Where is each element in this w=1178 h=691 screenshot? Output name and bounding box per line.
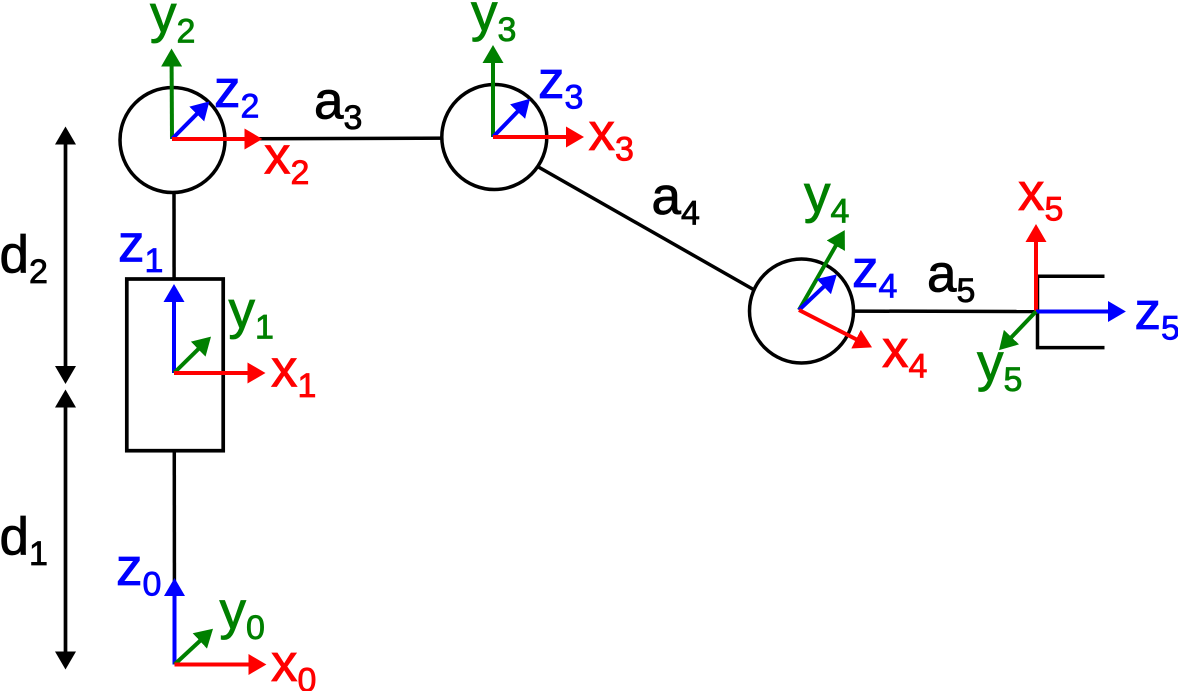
- axis z2: [172, 113, 198, 139]
- axis y5: [1010, 312, 1036, 339]
- svg-text:d1: d1: [0, 508, 48, 574]
- svg-text:y1: y1: [229, 281, 274, 347]
- axis x5: [1034, 240, 1038, 312]
- wire vertical link base to joint2: [172, 193, 176, 665]
- axis x3: [493, 135, 568, 139]
- svg-text:z2: z2: [214, 60, 259, 126]
- dimension arrow d2: [64, 143, 68, 369]
- svg-text:z5: z5: [1135, 282, 1178, 348]
- axis z4: [799, 285, 825, 310]
- axis y4: [799, 244, 837, 310]
- svg-text:y4: y4: [804, 165, 849, 231]
- axis x0: [175, 663, 251, 667]
- joint 3 circle: [442, 85, 547, 190]
- axis y2: [170, 65, 174, 140]
- dimension arrow d1: [64, 406, 68, 654]
- svg-text:x1: x1: [271, 340, 316, 406]
- svg-text:x5: x5: [1018, 163, 1063, 229]
- svg-text:y2: y2: [150, 0, 195, 51]
- svg-text:y0: y0: [220, 582, 265, 648]
- svg-text:d2: d2: [0, 226, 48, 292]
- svg-text:z0: z0: [116, 538, 161, 604]
- svg-text:a4: a4: [652, 167, 700, 233]
- svg-text:y3: y3: [471, 0, 516, 49]
- wire link a5 joint4-frame5: [801, 309, 1036, 313]
- axis y1: [174, 348, 200, 373]
- axis z3: [493, 110, 519, 137]
- svg-text:x2: x2: [264, 127, 309, 193]
- prismatic joint 1 rectangle: [127, 279, 223, 451]
- svg-text:x3: x3: [589, 103, 634, 169]
- gripper end effector: [1038, 276, 1105, 347]
- svg-text:x4: x4: [882, 320, 927, 386]
- joint 4 circle: [750, 259, 854, 363]
- axis y0: [175, 640, 202, 665]
- axis x1: [174, 371, 250, 375]
- svg-text:y5: y5: [977, 333, 1022, 399]
- svg-text:a3: a3: [314, 72, 362, 138]
- axis x2: [172, 137, 246, 141]
- wire link a3 joint2-joint3: [173, 138, 493, 139]
- svg-text:z4: z4: [852, 240, 897, 306]
- axis z0: [173, 594, 177, 665]
- svg-text:a5: a5: [927, 245, 975, 311]
- svg-text:z1: z1: [118, 214, 163, 280]
- axis z5: [1036, 310, 1110, 314]
- svg-text:x0: x0: [271, 634, 316, 691]
- axis z1: [172, 300, 176, 373]
- svg-text:z3: z3: [538, 51, 583, 117]
- axis y3: [491, 61, 495, 137]
- joint 2 circle: [120, 88, 225, 193]
- axis x4: [799, 310, 858, 340]
- wire link a4 joint3-joint4: [538, 167, 755, 291]
